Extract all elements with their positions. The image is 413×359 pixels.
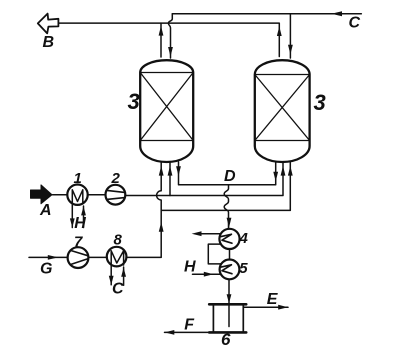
svg-text:C: C <box>112 281 124 298</box>
arrowhead left (exchanger 4 out) <box>192 231 202 236</box>
svg-text:A: A <box>39 202 52 219</box>
wire: B header line <box>59 23 279 56</box>
coil M in cooler 8 <box>111 251 123 265</box>
wire: exchanger 4 to exchanger 5 <box>229 249 231 260</box>
svg-text:5: 5 <box>239 260 248 277</box>
svg-text:4: 4 <box>239 230 249 247</box>
svg-text:7: 7 <box>74 233 83 250</box>
wire: H inlet to exchanger 5 <box>193 273 221 275</box>
svg-text:3: 3 <box>314 90 326 115</box>
arrowhead F <box>165 330 175 335</box>
X cross right <box>255 75 310 141</box>
arrowhead down on left D leg <box>176 166 181 176</box>
wire: wavy branch from D line down to exchanger 4 <box>224 185 228 228</box>
separator 6 lid <box>209 303 246 306</box>
wire: riser from compressor 8 up to left vessel bottom <box>126 162 161 257</box>
cooler 8 <box>107 247 127 267</box>
arrow G (inlet line arrow) <box>29 256 67 258</box>
arrowhead down into left vessel top <box>168 47 173 57</box>
compressor 7 <box>68 247 89 268</box>
arrowhead down into separator 6 <box>227 294 232 303</box>
svg-text:H: H <box>74 215 86 232</box>
svg-text:E: E <box>267 291 279 308</box>
coolant out line of cooler 1 <box>71 204 73 228</box>
arrow B (hollow outlet arrow) <box>38 14 59 34</box>
arrowhead C (pointing left) <box>331 11 342 16</box>
wire: left vessel bottom outlet to D line to right vessel <box>179 162 276 185</box>
wire: C header line <box>172 13 361 15</box>
arrowhead down coolant out (C) <box>109 276 114 285</box>
arrowhead up into left vessel (riser) <box>159 166 164 176</box>
wire: exchanger 4 outlet left <box>199 233 221 235</box>
arrowhead E <box>278 305 288 310</box>
coil M in cooler 1 <box>72 190 83 203</box>
svg-text:D: D <box>224 168 236 185</box>
cooler 1 <box>67 185 87 205</box>
wire: C line down into left vessel with hop over B line <box>168 14 172 58</box>
arrowhead down into right vessel top <box>288 45 293 55</box>
exchanger 5 <box>220 260 240 280</box>
svg-text:F: F <box>184 316 195 333</box>
arrowhead down coolant out (H) <box>70 218 75 227</box>
X cross left <box>140 73 193 141</box>
arrowhead right (H into 5) <box>204 272 214 277</box>
separator 6 dip tube <box>228 304 230 326</box>
compressor 2 <box>106 185 126 205</box>
wire: left vessel riser to B line <box>160 23 162 57</box>
svg-text:H: H <box>184 258 196 275</box>
svg-text:C: C <box>349 15 361 32</box>
arrowhead up coolant in (8) <box>121 268 126 277</box>
wire: C line down into right vessel <box>289 14 291 58</box>
compressor 2 chords <box>107 190 125 199</box>
wire: bypass U from 4 to 5 <box>208 244 221 264</box>
arrowhead up left B riser <box>159 26 164 36</box>
arrowhead up on right B riser <box>277 26 282 36</box>
svg-text:2: 2 <box>111 170 121 187</box>
coil zigzag in exchanger 4 <box>221 234 232 243</box>
coolant out line of cooler 8 <box>110 265 112 285</box>
arrowhead up on G riser <box>159 222 164 232</box>
svg-text:G: G <box>40 260 52 277</box>
separator 6 bottom <box>209 331 246 334</box>
arrowhead up into left vessel (line 1 riser) <box>168 166 173 176</box>
svg-text:8: 8 <box>114 232 123 249</box>
wire: A to cooler 1 <box>53 194 68 196</box>
arrow A (solid feed arrow) <box>31 185 53 204</box>
exchanger 4 <box>219 229 239 249</box>
coolant in line of cooler 8 <box>123 267 125 285</box>
wire: cooler 1 to compressor 2 <box>88 194 106 196</box>
arrowhead G <box>48 255 58 260</box>
wire: F outlet <box>165 331 210 333</box>
compressor 7 chords <box>70 250 88 264</box>
wire: feed line 1 from compressor 2 with hop, to right vessel bottom <box>125 162 283 196</box>
arrowhead down on right D leg <box>273 172 278 182</box>
svg-text:1: 1 <box>74 170 82 187</box>
arrowhead up into right vessel (line 1) <box>281 166 286 176</box>
separator 6 walls <box>213 304 243 332</box>
svg-text:3: 3 <box>128 89 140 114</box>
svg-text:6: 6 <box>221 330 231 349</box>
coolant in line of cooler 1 <box>83 206 85 228</box>
catalyst bed rect right <box>255 75 310 141</box>
coil zigzag in exchanger 5 <box>221 265 232 274</box>
reactor vessel 3 (right) <box>255 60 310 162</box>
wire: exchanger 5 down to separator 6 <box>228 279 230 303</box>
arrowhead down into exchanger 4 <box>227 218 232 228</box>
wire: E outlet <box>243 306 288 308</box>
wire: line 2 quench header to right vessel bottom <box>161 162 290 210</box>
arrowhead up coolant in <box>81 206 86 215</box>
svg-text:B: B <box>43 34 55 51</box>
arrowhead up into right vessel (line 2) <box>288 166 293 176</box>
wire: left vessel feed riser from line 1 <box>169 162 171 196</box>
catalyst bed rect left <box>140 73 193 141</box>
reactor vessel 3 (left) <box>140 60 193 162</box>
wire: compressor 7 to cooler 8 <box>88 256 107 258</box>
